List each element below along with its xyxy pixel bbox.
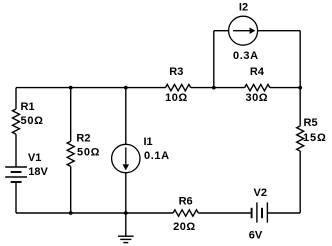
wire bottom horizontal right segment: [267, 212, 300, 214]
node junction dot top I2 left: [212, 86, 216, 90]
wire top horizontal right segment: [270, 87, 300, 89]
resistor R6: [173, 210, 198, 216]
svg-text:20Ω: 20Ω: [173, 221, 196, 233]
resistor R5: [297, 126, 304, 151]
battery V2 plate short: [261, 208, 263, 218]
wire left branch upper: [15, 88, 17, 109]
svg-text:R2: R2: [76, 133, 90, 145]
resistor R1: [13, 109, 20, 134]
node junction dot top R2: [69, 86, 73, 90]
node junction dot top right: [298, 86, 302, 90]
svg-text:30Ω: 30Ω: [246, 92, 269, 104]
svg-text:15Ω: 15Ω: [303, 132, 327, 144]
ground stem: [125, 213, 127, 236]
svg-text:10Ω: 10Ω: [165, 92, 188, 104]
svg-text:50Ω: 50Ω: [77, 147, 100, 159]
node junction dot bottom ground: [124, 211, 128, 215]
wire R1 to V1: [15, 134, 17, 167]
current source I2 circle: [229, 16, 258, 45]
wire top horizontal left segment: [16, 87, 166, 89]
wire right branch upper: [299, 88, 301, 126]
wire V1 to bottom: [15, 182, 17, 213]
wire R2 branch upper: [70, 88, 72, 142]
wire I1 branch lower: [125, 173, 127, 213]
battery V1 plate long: [5, 176, 27, 178]
ground bar 2: [120, 238, 131, 240]
battery V2 plate long right: [266, 202, 268, 222]
wire I2 branch right vertical: [299, 31, 301, 88]
svg-text:I1: I1: [144, 136, 153, 148]
wire bottom horizontal left segment: [16, 212, 173, 214]
battery V1 plate short bottom: [11, 181, 22, 183]
svg-text:V1: V1: [28, 152, 41, 164]
battery V2 plate short left: [251, 208, 253, 218]
resistor R4: [245, 84, 270, 90]
svg-text:6V: 6V: [249, 229, 263, 241]
svg-text:R1: R1: [21, 101, 35, 113]
ground bar 3: [123, 242, 128, 244]
wire I1 branch upper: [125, 88, 127, 145]
wire I2 branch left vertical: [213, 31, 215, 88]
svg-text:0.3A: 0.3A: [233, 50, 259, 62]
svg-text:R6: R6: [179, 195, 193, 207]
wire bottom horizontal middle segment: [198, 212, 251, 214]
battery V1 plate short: [11, 171, 22, 173]
wire top horizontal middle segment: [191, 87, 245, 89]
svg-text:R5: R5: [304, 117, 318, 129]
current source I1 arrow: [123, 147, 130, 170]
node junction dot top I1: [124, 86, 128, 90]
resistor R2: [67, 141, 74, 166]
wire I2 branch top right: [258, 30, 301, 32]
svg-text:0.1A: 0.1A: [144, 150, 170, 162]
current source I2 arrow: [233, 27, 255, 34]
svg-text:18V: 18V: [28, 166, 48, 178]
svg-text:50Ω: 50Ω: [21, 115, 44, 127]
ground bar 1: [118, 235, 134, 237]
resistor R3: [166, 84, 191, 90]
current source I1 circle: [112, 144, 140, 172]
svg-text:R4: R4: [250, 66, 265, 78]
svg-text:I2: I2: [239, 2, 248, 14]
svg-text:V2: V2: [254, 187, 267, 199]
node junction dot bottom R2: [69, 211, 73, 215]
wire I2 branch top left: [214, 30, 229, 32]
wire R2 branch lower: [70, 166, 72, 213]
wire right branch lower: [299, 151, 301, 213]
battery V1 plate long top: [5, 166, 27, 168]
svg-text:R3: R3: [169, 66, 183, 78]
battery V2 plate long: [256, 202, 258, 222]
